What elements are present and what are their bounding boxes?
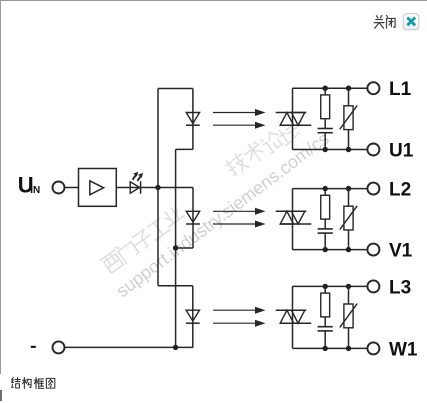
svg-text:V1: V1 [389,241,413,262]
wire D3 anode [192,188,194,212]
terminal V1 [367,244,379,256]
wire RV3 top lead [348,286,350,304]
wire R3-C3 lead [324,317,326,327]
svg-text:U1: U1 [389,140,414,161]
optical arrow 1b [213,122,266,129]
amplifier A1 [79,169,117,207]
optical arrow 3a [213,307,266,314]
wire RV1 top lead [348,88,350,106]
svg-text:W1: W1 [389,339,418,360]
node B (return junction) [173,245,178,250]
wire top rail ch3 [293,285,368,287]
triac Q3 [276,310,312,323]
terminal W1 [367,342,379,354]
wire D2 cathode [192,125,194,149]
node rail-RV-bot ch3 [346,346,351,351]
terminal minus [53,341,65,353]
node rail-R ch2 [323,186,328,191]
node rail-RV ch2 [346,186,351,191]
wire top rail ch2 [293,188,368,190]
terminal L1 [367,82,379,94]
wire amp to LED [116,187,140,189]
svg-text:L2: L2 [389,180,411,201]
wire R2 top lead [324,189,326,196]
wire bottom rail ch2 [293,249,368,251]
optical arrow 2a [213,208,266,215]
node rail-R ch3 [323,284,328,289]
terminal L3 [367,280,379,292]
svg-text:L1: L1 [389,79,412,100]
wire R2-C2 lead [324,219,326,229]
triac Q1 [276,113,312,126]
wire bottom rail ch3 [293,347,368,349]
caption jiegou-kuangtu (structure diagram) [11,377,54,388]
wire RV3 bottom lead [348,328,350,349]
wire return lower [175,248,177,347]
wire node A to D3 [158,187,193,189]
wire R1-C1 lead [324,119,326,129]
LED D4 (channel 3 optocoupler) [186,310,200,323]
LED D3 (channel 2 optocoupler) [186,211,200,224]
wire minus rail [65,346,193,348]
wire triac feed ch2 [292,189,294,250]
optical arrow 1a [213,109,266,116]
wire C3 bottom lead [324,331,326,349]
node rail-C ch3 [323,346,328,351]
wire D4 anode [192,286,194,310]
node rail-RV-bot ch2 [346,247,351,252]
varistor RV1 [340,105,357,129]
LED D1 (input indicator) [130,172,143,194]
wire RV2 top lead [348,189,350,207]
resistor R1 [321,95,330,119]
capacitor C1 [318,129,333,133]
svg-text:support.industry.siemens.com/c: support.industry.siemens.com/cs [112,128,332,301]
wire D4 cathode [192,323,194,347]
wire top rail ch1 [293,87,368,89]
capacitor C2 [318,229,333,233]
wire RV1 bottom lead [348,130,350,150]
wire RV2 bottom lead [348,230,350,250]
node rail-C ch2 [323,247,328,252]
terminal L2 [367,183,379,195]
optical arrow 2b [213,221,266,228]
node rail-RV ch1 [346,86,351,91]
wire R1 top lead [324,88,326,95]
wire triac feed ch1 [292,88,294,149]
wire D3 jog left [176,247,193,249]
label Uin [18,172,40,197]
node rail-R ch1 [323,86,328,91]
wire Uin to amp [65,187,79,189]
wire D2 jog left [176,148,193,150]
node A (input junction) [155,185,160,190]
capacitor C3 [318,327,333,331]
optical arrow 3b [213,320,266,327]
wire LED to node A [141,187,158,189]
wire top jog [158,88,193,90]
varistor RV2 [340,206,357,230]
node rail-C ch1 [323,147,328,152]
triac Q2 [276,211,312,224]
varistor RV3 [340,304,357,328]
node rail-RV ch3 [346,284,351,289]
resistor R2 [321,195,330,219]
wire triac feed ch3 [292,286,294,348]
wire C1 bottom lead [324,133,326,150]
svg-text:IN: IN [30,185,40,196]
wire D2 anode [192,89,194,113]
node C (minus junction) [173,345,178,350]
LED D2 (channel 1 optocoupler) [186,113,200,126]
node rail-RV-bot ch1 [346,147,351,152]
terminal U1 [367,144,379,156]
wire C2 bottom lead [324,233,326,250]
wire bus up [157,89,159,188]
label minus [31,346,36,348]
svg-text:L3: L3 [389,277,411,298]
terminal Uin [53,182,65,194]
resistor R3 [321,293,330,317]
wire R3 top lead [324,286,326,293]
label close (guanbi) [374,15,395,28]
wire return upper [175,149,177,248]
wire bottom jog [158,285,193,287]
wire D3 cathode [192,224,194,248]
wire bottom rail ch1 [293,149,368,151]
wire bus down [157,188,159,286]
watermark [100,121,333,301]
close button X [403,14,419,30]
